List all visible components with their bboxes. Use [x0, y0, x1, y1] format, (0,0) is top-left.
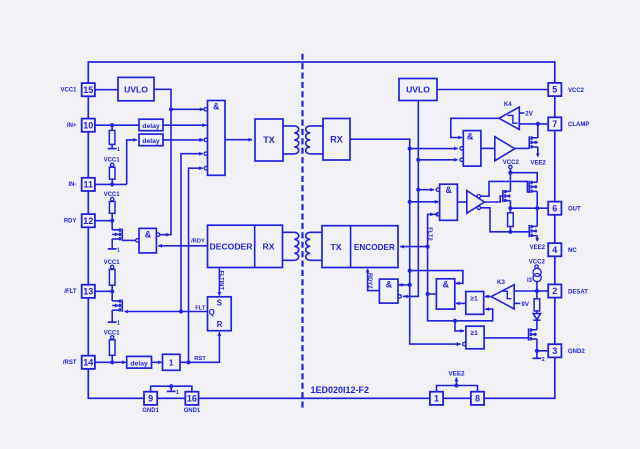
wire K3 output to OR1 [485, 296, 491, 298]
AND gate G8 (rdy drive) [139, 228, 156, 253]
wire UVLO1 output [154, 89, 171, 234]
svg-text:1: 1 [117, 147, 120, 153]
comparator K4 [499, 107, 519, 130]
diode D1 [533, 314, 540, 320]
svg-text:9V: 9V [521, 301, 529, 308]
DECODER+RX block [208, 225, 283, 267]
pin 6 [548, 202, 561, 215]
wire Q4 drain to OUT node [536, 208, 538, 226]
svg-text:FLT2: FLT2 [427, 227, 433, 240]
mosfet Q2 (pull-up inner) [502, 190, 504, 202]
pin 9 [144, 392, 157, 405]
wire OUT node to pin6 [510, 207, 548, 209]
wire AND G3 out to driver [457, 201, 466, 203]
svg-text:5: 5 [552, 85, 557, 95]
wire DESAT node to resistor [536, 291, 538, 299]
pin 3 [548, 344, 561, 357]
GND1 bracket wire [151, 386, 192, 392]
node DESAT [535, 289, 539, 293]
wire UVLO2 output bus2 [403, 101, 419, 297]
svg-text:IN-: IN- [69, 182, 77, 188]
svg-text:VCC2: VCC2 [568, 88, 585, 94]
K4 hysteresis glyph [507, 115, 517, 123]
AND gate G5 (rdy2) [379, 279, 398, 303]
wire resistor to diode [536, 311, 538, 314]
svg-text:8: 8 [475, 394, 480, 404]
svg-text:6: 6 [552, 203, 557, 213]
resistor R-out [508, 213, 514, 227]
svg-text:&: & [386, 280, 393, 290]
svg-text:VEE2: VEE2 [448, 370, 465, 377]
wire bus1 to AND G3 in2 [410, 201, 439, 203]
wire Q3 source to OUT node [536, 191, 538, 208]
pin 11 [82, 178, 95, 191]
svg-text:NC: NC [568, 248, 577, 254]
node bus1/DESAT [408, 269, 412, 273]
svg-text:11: 11 [84, 180, 94, 190]
mosfet Q6 (rdy open drain) [121, 228, 123, 240]
mosfet Q5 (desat discharge) [528, 328, 530, 340]
AND gate G3 (output logic) [440, 184, 458, 220]
pin 15 [82, 83, 95, 96]
wire UVLO2 to pin5 [437, 89, 548, 91]
mosfet Q4 (pull-down) [528, 225, 530, 237]
resistor R-IN- pullup [109, 167, 115, 179]
AND G1 in5 bubble [204, 167, 207, 170]
transformer T2 secondary coil [283, 232, 299, 260]
svg-text:DESAT: DESAT [568, 289, 588, 295]
wire GND2 node to pin3 [537, 350, 548, 352]
wire DESAT node to K3 [514, 290, 537, 292]
wire rail to Q2 drain [509, 173, 511, 192]
node bus1/CLAMP [408, 147, 412, 151]
svg-text:14: 14 [83, 358, 93, 368]
AND G2 in3 bubble [460, 158, 463, 161]
mosfet Q1 (clamp) [528, 136, 530, 148]
svg-text:Q: Q [209, 308, 215, 317]
resistor R-IN+ pulldown [109, 130, 115, 144]
wire FLTINT decoder to latch S [218, 268, 220, 296]
wire K4 output to AND G2 in1 [451, 118, 499, 137]
wire delay3 to buffer [152, 361, 162, 363]
svg-text:K3: K3 [497, 279, 505, 286]
svg-text:GND1: GND1 [184, 408, 201, 414]
AND gate G2 (clamp logic) [463, 131, 481, 167]
wire FLT latch Q to Q7 gate [125, 311, 208, 313]
wire pin10 to delay1 [95, 124, 139, 126]
driver B2 bottom bubble [477, 206, 480, 209]
svg-text:/RDY: /RDY [191, 239, 205, 245]
svg-text:&: & [213, 102, 220, 112]
delay block 2 [139, 134, 163, 146]
VEE2 bracket junction [454, 383, 458, 387]
buffer block 1 (rst) [163, 354, 181, 370]
wire bus2 to AND G3 in1 [418, 189, 434, 191]
resistor R-desat [534, 299, 540, 311]
wire bus1 to AND G2 in2 [410, 148, 458, 150]
wire pin11 IN- [95, 183, 127, 185]
pin 14 [82, 356, 95, 369]
svg-text:1: 1 [169, 358, 174, 367]
svg-text:&: & [467, 132, 474, 142]
svg-text:IN+: IN+ [67, 123, 77, 129]
transformer T1 secondary coil [306, 126, 323, 154]
wire pin12 RDY [95, 220, 112, 222]
svg-text:1: 1 [117, 321, 120, 327]
wire VCC2 to current source [536, 267, 538, 270]
node OUT a [508, 206, 512, 210]
K3 hysteresis glyph [503, 291, 512, 299]
svg-text:≥1: ≥1 [470, 295, 478, 302]
isolation barrier dashed line [301, 54, 303, 408]
wire bus1 to AND G4 in1 [410, 271, 463, 284]
wire Q7 drain to /FLT line [111, 291, 113, 301]
svg-text:GND1: GND1 [142, 408, 159, 414]
wire B2 bottom bubble to Q4 gate [481, 208, 530, 232]
IC outer frame [88, 62, 555, 398]
svg-text:delay: delay [142, 123, 160, 130]
wire OUT node to resistor [509, 208, 511, 213]
ENCODER divider [350, 226, 352, 268]
TX block (primary) [255, 119, 283, 161]
wire UVLO1 to AND1 in1 [171, 108, 204, 110]
K4 ref stub [519, 112, 524, 114]
svg-text:ENCODER: ENCODER [354, 243, 395, 252]
AND G1 in3 bubble [204, 138, 207, 141]
svg-text:I3: I3 [527, 278, 533, 284]
wire latch feedback to OR G7 in1 [455, 321, 464, 331]
OR gate G6 (desat latch) [466, 292, 484, 315]
wire AND G8 out to Q6 gate [122, 239, 135, 241]
wire delay2 to AND1 in3 [163, 139, 203, 141]
svg-text:RDY: RDY [64, 218, 77, 224]
svg-text:1: 1 [117, 248, 120, 254]
wire DESAT node to pin2 [537, 290, 548, 292]
wire buffer B1 to Q1 gate [515, 147, 530, 149]
svg-text:7: 7 [552, 119, 557, 129]
svg-text:VCC1: VCC1 [60, 87, 77, 93]
svg-text:2V: 2V [525, 111, 533, 118]
AND G1 in1 bubble [204, 108, 207, 111]
latch U3 (SR fault latch) [208, 297, 232, 331]
wire OR G6 out to AND G4 [456, 302, 466, 304]
buffer B1 (clamp driver) [495, 137, 515, 161]
svg-text:RX: RX [330, 135, 343, 145]
wire bus2 to AND G2 in3 [418, 159, 457, 161]
wire pullup to RDY line [111, 200, 113, 203]
pin 1 [430, 392, 443, 405]
wire Q1 source to VEE2 [537, 147, 539, 154]
node FLT [179, 309, 183, 313]
svg-text:K4: K4 [504, 101, 512, 108]
wire resistor to ground [111, 125, 113, 130]
comparator K3 [491, 285, 514, 309]
wire bus1 to AND G5 in1 [399, 284, 410, 286]
node /FLT [110, 289, 114, 293]
node GND2 [535, 349, 539, 353]
svg-text:UVLO: UVLO [406, 85, 430, 95]
pin 7 [548, 117, 561, 130]
delay block 1 [139, 119, 163, 131]
pin 12 [82, 214, 95, 227]
AND G8 out bubble [136, 239, 139, 242]
wire Q1 drain to CLAMP node [537, 124, 539, 138]
svg-text:FLT: FLT [195, 305, 206, 311]
svg-text:13: 13 [83, 287, 93, 297]
UVLO U2 (secondary) [399, 79, 437, 101]
svg-text:2: 2 [542, 357, 545, 363]
node IN- pullup [110, 182, 114, 186]
wire FLT2 to encoder [400, 246, 427, 248]
svg-text:&: & [443, 280, 450, 290]
svg-text:delay: delay [142, 138, 160, 145]
transformer T2 primary coil [306, 232, 322, 260]
wire VCC2 to rail node [509, 169, 511, 173]
AND G1 in4 bubble [204, 152, 207, 155]
node bus1/OUT [408, 200, 412, 204]
K3 ref stub [514, 302, 520, 304]
node FLT2/G4 [426, 292, 430, 296]
wire RST to AND G1 in5 [189, 168, 203, 362]
transformer T1 primary coil [283, 126, 299, 154]
node IN+ pulldown [110, 123, 114, 127]
wire AND G4 out to FLT2 bus [428, 293, 437, 295]
svg-text:TX: TX [331, 242, 342, 252]
svg-text:GND2: GND2 [568, 349, 585, 355]
driver B2 (push-pull driver) [467, 191, 485, 214]
DECODER divider [254, 225, 256, 267]
wire IN- to delay2 [127, 140, 137, 185]
node bus2/OUT [416, 188, 420, 192]
node latch feedback [453, 319, 457, 323]
ground 1 (IN+) [111, 144, 113, 148]
svg-text:1ED020I12-F2: 1ED020I12-F2 [311, 385, 370, 395]
AND G3 in1 bubble [436, 188, 439, 191]
svg-text:15: 15 [83, 85, 93, 95]
wire Q6 drain to RDY line [111, 221, 113, 230]
wire RX1 output to bus1 [350, 139, 460, 344]
wire rail to Q3 drain [510, 173, 537, 183]
OR gate G7 (desat drive) [466, 326, 484, 349]
driver B2 top bubble [477, 195, 480, 198]
svg-text:3: 3 [552, 346, 557, 356]
AND G2 in2 bubble [460, 147, 463, 150]
svg-text:DECODER: DECODER [210, 242, 254, 252]
svg-text:delay: delay [130, 360, 148, 367]
node UVLO1/AND1 [169, 107, 173, 111]
AND G8 in1 bubble [156, 233, 159, 236]
svg-text:S: S [217, 299, 222, 308]
svg-text:16: 16 [187, 394, 197, 404]
svg-text:OUT: OUT [568, 207, 581, 213]
mosfet Q3 (pull-up outer) [528, 181, 530, 193]
AND gate G1 (primary input logic) [208, 101, 226, 176]
UVLO U1 (primary) [118, 77, 154, 100]
wire resistor to lower node [509, 227, 511, 232]
svg-text:1: 1 [434, 394, 439, 404]
node bus2/CLAMP [416, 158, 420, 162]
svg-text:UVLO: UVLO [124, 84, 148, 94]
wire pin14 /RST to delay3 [95, 361, 126, 363]
GND1 bracket junction [169, 384, 173, 388]
wire B2 top bubble to Q3 gate [481, 181, 530, 196]
svg-text:9: 9 [148, 394, 153, 404]
wire Q7 source to ground [111, 310, 113, 318]
resistor R-rdy pullup [109, 202, 115, 214]
wire pullup to IN- line [111, 166, 113, 169]
svg-text:TX: TX [263, 135, 275, 145]
wire Q6 source to ground [111, 239, 113, 245]
wire Q5 source to GND2 node [536, 339, 538, 351]
wire Q2 source to OUT node [509, 201, 511, 209]
VEE2 bracket wire [437, 386, 478, 393]
OR G7 in2 bubble [463, 342, 466, 345]
wire FLT to AND G1 in4 [181, 154, 203, 312]
ground 1 (GND1 bracket) [170, 386, 172, 391]
VEE2 bracket arrow wire [456, 378, 458, 386]
delay block 3 [127, 356, 152, 368]
resistor R-rst pullup [109, 340, 115, 356]
node CLAMP [536, 122, 540, 126]
wire I3 to DESAT node [536, 282, 538, 291]
svg-text:RDY2: RDY2 [366, 273, 372, 288]
wire RST to latch R [180, 332, 219, 362]
svg-text:RST: RST [194, 356, 206, 362]
wire K4 input to pin7 [519, 123, 548, 125]
node VCC2 rail [508, 171, 512, 175]
ground 1 (rdy) [111, 245, 113, 249]
wire AND G2 out to buffer [481, 147, 495, 149]
AND G3 in3 bubble [436, 213, 439, 216]
wire pullup to FLT line [111, 268, 113, 271]
svg-text:≥1: ≥1 [470, 330, 478, 337]
svg-text:FLTINT: FLTINT [218, 271, 224, 291]
pin 4 [548, 243, 561, 256]
ground 2 (desat) [536, 351, 538, 359]
node bus1/RDY2 [408, 283, 412, 287]
wire diode to Q5 drain [536, 320, 538, 330]
wire B2 apex to Q2 gate [484, 196, 503, 202]
svg-text:VEE2: VEE2 [530, 245, 546, 251]
svg-text:R: R [217, 320, 223, 329]
svg-text:RX: RX [263, 242, 275, 252]
pin 10 [82, 119, 95, 132]
svg-text:VEE2: VEE2 [531, 160, 547, 166]
pin 2 [548, 284, 561, 297]
AND gate G4 (fault latch) [436, 279, 454, 309]
wire /RDY decoder to AND G8 [158, 245, 207, 247]
node FLT2/encoder [426, 245, 430, 249]
svg-text:/FLT: /FLT [64, 289, 77, 295]
node OUT b [535, 206, 539, 210]
wire pin15 to UVLO1 [95, 89, 118, 91]
ground 1 (flt) [111, 318, 113, 322]
wire pullup to RST line [111, 338, 113, 341]
resistor R-flt pullup [109, 269, 115, 285]
pin 13 [82, 285, 95, 298]
svg-text:12: 12 [83, 216, 93, 226]
pin 5 [548, 83, 561, 96]
node OUT lower [508, 230, 512, 234]
node RST [186, 360, 190, 364]
svg-text:/RST: /RST [63, 360, 77, 366]
wire AND G5 out to encoder [368, 269, 380, 290]
node RDY [110, 219, 114, 223]
FLT2 bus wire [428, 214, 493, 320]
svg-text:CLAMP: CLAMP [568, 122, 589, 128]
pin 16 [185, 392, 198, 405]
wire OR G7 out to Q5 gate [484, 337, 528, 339]
mosfet Q7 (flt open drain) [121, 300, 123, 312]
AND G5 in2 bubble [398, 295, 401, 298]
svg-text:&: & [446, 185, 453, 195]
node /RST [110, 360, 114, 364]
pin 8 [471, 392, 484, 405]
svg-text:2: 2 [552, 286, 557, 296]
TX+ENCODER block [322, 226, 398, 268]
svg-text:1: 1 [176, 390, 179, 396]
wire Q4 source to VEE2 [536, 236, 538, 239]
svg-text:&: & [145, 229, 152, 239]
wire pin13 /FLT [95, 290, 112, 292]
RX block (secondary) [323, 119, 350, 161]
wire delay1 to AND1 in2 [163, 124, 207, 126]
svg-text:10: 10 [83, 120, 93, 130]
current source I3 [533, 268, 541, 276]
wire AND G1 output to TX1 [225, 139, 252, 141]
svg-text:4: 4 [552, 245, 557, 255]
